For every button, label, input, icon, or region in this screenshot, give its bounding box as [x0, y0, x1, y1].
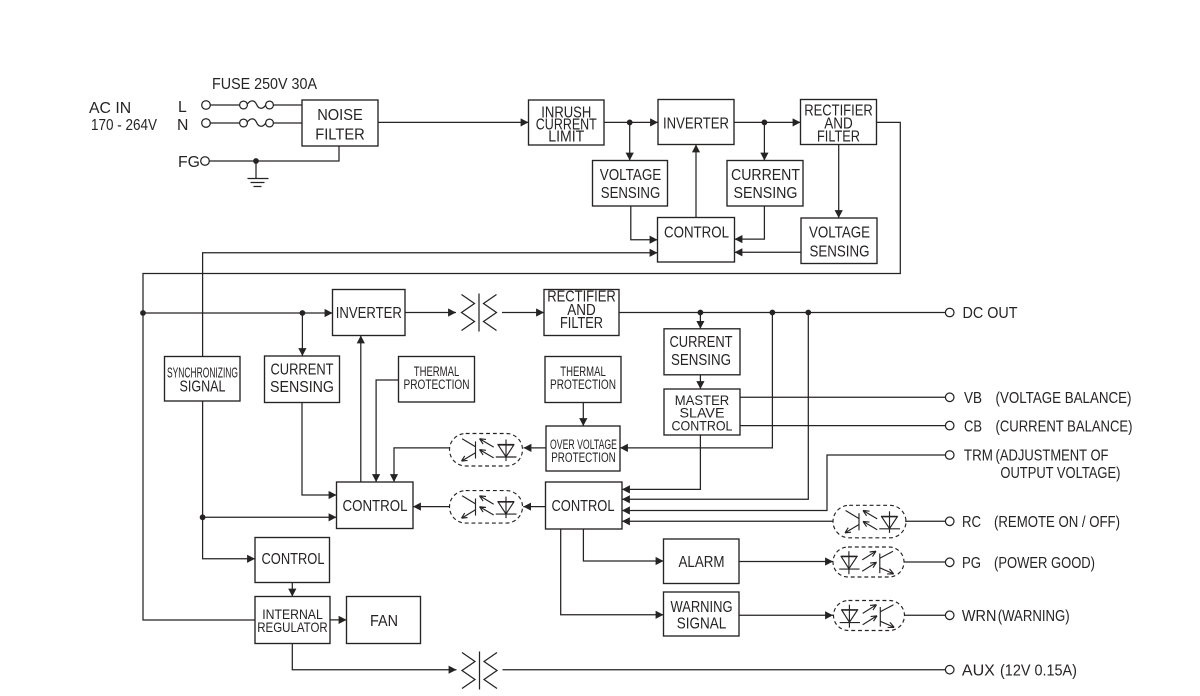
terminal FG: [178, 154, 209, 171]
svg-text:VOLTAGE: VOLTAGE: [600, 167, 662, 184]
wire N terminal to fuse F2: [210, 122, 239, 124]
wire thermal protection left to control 2 top: [376, 380, 398, 482]
svg-text:CONTROL: CONTROL: [664, 225, 729, 242]
svg-text:SENSING: SENSING: [810, 243, 870, 260]
wire OVP to opto isolator 1: [524, 447, 547, 449]
svg-text:N: N: [177, 117, 188, 134]
wire current sensing 3 to master slave control: [699, 375, 701, 389]
svg-text:FG: FG: [178, 154, 200, 171]
wire branch down to current sensing 2: [301, 313, 303, 356]
wire opto 2 to control 2: [413, 506, 450, 508]
wire alarm to opto isolator 4: [739, 561, 833, 563]
block OVER VOLTAGE PROTECTION: [546, 426, 620, 471]
terminal CB: [945, 418, 1132, 435]
terminal N: [177, 117, 210, 134]
svg-text:FAN: FAN: [370, 613, 398, 630]
svg-text:DC OUT: DC OUT: [963, 305, 1018, 322]
terminal DC OUT: [945, 305, 1017, 322]
svg-text:SIGNAL: SIGNAL: [180, 378, 226, 395]
block THERMAL PROTECTION (left): [399, 357, 475, 403]
svg-text:WRN: WRN: [962, 608, 997, 625]
block INTERNAL REGULATOR: [255, 597, 330, 644]
terminal TRM: [945, 448, 1120, 483]
svg-text:L: L: [178, 99, 187, 116]
junction dot DC bus to control 4 sense: [805, 310, 811, 316]
transformer T2: [462, 652, 497, 690]
junction dot inrush-inverter: [627, 120, 633, 126]
svg-text:CURRENT: CURRENT: [731, 167, 801, 184]
junction dot DC bus to OVP sense: [770, 310, 776, 316]
svg-text:FUSE 250V 30A: FUSE 250V 30A: [212, 76, 317, 93]
fuse F1 (line L): [240, 101, 274, 109]
svg-text:INVERTER: INVERTER: [336, 305, 402, 322]
wire control 4 down to warning signal: [561, 529, 664, 615]
svg-text:TRM: TRM: [964, 448, 993, 465]
block CONTROL (secondary side): [546, 482, 623, 529]
block CURRENT SENSING (stage 1): [727, 161, 803, 207]
svg-text:NOISE: NOISE: [317, 107, 363, 124]
ground symbol: [248, 161, 269, 187]
svg-text:FILTER: FILTER: [560, 315, 603, 332]
block MASTER SLAVE CONTROL: [664, 389, 740, 435]
wire DC bus down to current sensing 3: [699, 313, 701, 329]
svg-text:SENSING: SENSING: [671, 352, 731, 369]
svg-text:SENSING: SENSING: [270, 379, 334, 396]
svg-text:VOLTAGE: VOLTAGE: [809, 225, 870, 242]
wire voltage sensing 1 to control 1: [631, 206, 658, 240]
block CONTROL (stage 1): [658, 218, 735, 263]
wire opto 1 to control 2 top: [394, 448, 450, 482]
wire synchronizing signal down to control 2 and control 3: [203, 401, 255, 559]
block INVERTER (stage 1): [658, 100, 734, 145]
wire control 1 up to inverter 1: [695, 145, 697, 218]
svg-text:CONTROL: CONTROL: [343, 498, 408, 515]
block VOLTAGE SENSING (input): [593, 161, 668, 207]
opto isolator 5 (warning): [834, 601, 905, 631]
svg-text:(POWER GOOD): (POWER GOOD): [994, 555, 1095, 572]
junction dot bus to inverter 2: [140, 310, 146, 316]
terminal AUX: [945, 662, 1077, 679]
svg-text:(WARNING): (WARNING): [998, 608, 1070, 625]
block FAN: [347, 597, 421, 644]
svg-text:PG: PG: [962, 555, 981, 572]
junction dot FG/ground: [253, 158, 259, 164]
wire noise filter to inrush current limit: [378, 121, 529, 123]
svg-text:PROTECTION: PROTECTION: [550, 377, 616, 392]
wire synchronizing signal up to control 1: [203, 253, 658, 357]
svg-text:PROTECTION: PROTECTION: [404, 377, 470, 392]
wire internal regulator to transformer T2: [292, 644, 456, 670]
wire internal regulator to fan: [330, 619, 347, 621]
block CONTROL (fan/aux): [255, 538, 330, 583]
wire opto 3 to control 4: [622, 520, 833, 522]
wire fuse F1 to noise filter: [273, 104, 302, 106]
svg-text:(REMOTE ON / OFF): (REMOTE ON / OFF): [994, 514, 1120, 531]
svg-text:(CURRENT BALANCE): (CURRENT BALANCE): [996, 418, 1133, 435]
wire control 4 down to alarm: [583, 529, 663, 561]
block INRUSH CURRENT LIMIT: [529, 100, 605, 146]
svg-text:(VOLTAGE BALANCE): (VOLTAGE BALANCE): [996, 390, 1132, 407]
svg-text:SENSING: SENSING: [734, 185, 798, 202]
svg-text:WARNING: WARNING: [671, 599, 733, 616]
block CURRENT SENSING (stage 2): [265, 356, 340, 403]
opto isolator 3 (remote on/off): [833, 505, 906, 538]
block WARNING SIGNAL: [664, 592, 740, 636]
wire rectifier 1 output bus down-left to internal regulator: [143, 122, 900, 620]
transformer T1: [462, 294, 497, 332]
svg-text:170 - 264V: 170 - 264V: [91, 117, 157, 134]
svg-text:FILTER: FILTER: [315, 127, 365, 144]
junction dot inverter2 feed / current sensing 2: [300, 310, 306, 316]
terminal WRN: [945, 608, 1069, 625]
svg-text:VB: VB: [964, 390, 982, 407]
wire bus to inverter 2: [143, 312, 333, 314]
svg-text:PROTECTION: PROTECTION: [551, 450, 616, 465]
svg-text:CURRENT: CURRENT: [670, 334, 733, 351]
wire voltage sensing 1b to control 1: [735, 251, 802, 253]
wire inrush to inverter: [604, 121, 658, 123]
wire inverter to rectifier: [734, 121, 801, 123]
svg-text:CONTROL: CONTROL: [262, 551, 325, 568]
wire opto 4 to PG terminal: [904, 561, 945, 563]
svg-text:CONTROL: CONTROL: [552, 498, 615, 515]
wire warning signal to opto isolator 5: [739, 614, 833, 616]
wire control 4 to opto isolator 2: [523, 506, 545, 508]
wire current sensing 1 to control 1: [735, 206, 765, 239]
wire thermal protection right to OVP: [582, 403, 584, 427]
wire sync dot to control 2: [203, 516, 337, 518]
block SYNCHRONIZING SIGNAL: [165, 357, 241, 402]
wire master slave control to VB terminal: [740, 396, 945, 398]
block RECTIFIER AND FILTER (stage 1): [801, 100, 877, 146]
svg-text:CURRENT: CURRENT: [271, 362, 334, 379]
block RECTIFIER AND FILTER (stage 2): [544, 289, 619, 336]
label AC IN 170-264V: [89, 100, 157, 134]
block CONTROL (stage 2): [337, 482, 414, 529]
svg-text:REGULATOR: REGULATOR: [257, 619, 328, 635]
wire control 3 to internal regulator: [291, 583, 293, 597]
svg-text:OUTPUT VOLTAGE): OUTPUT VOLTAGE): [1000, 465, 1120, 482]
block ALARM: [664, 539, 740, 584]
wire inverter 2 to transformer T1: [405, 312, 456, 314]
svg-text:LIMIT: LIMIT: [548, 129, 585, 146]
wire DC bus down to over voltage protection: [620, 313, 772, 448]
svg-text:AC IN: AC IN: [89, 100, 131, 117]
block INVERTER (stage 2): [333, 290, 406, 336]
opto isolator 2 (control feedback): [450, 491, 523, 523]
svg-text:CB: CB: [964, 418, 982, 435]
wire opto 3 to RC terminal: [905, 520, 945, 522]
wire TRM terminal to control 4: [622, 455, 945, 511]
terminal RC: [945, 514, 1120, 531]
wire opto 5 to WRN terminal: [905, 614, 946, 616]
svg-text:FILTER: FILTER: [817, 128, 860, 145]
fuse F2 (line N): [240, 119, 274, 127]
wire transformer T2 to AUX terminal: [503, 669, 946, 671]
wire master slave control down to control 4: [622, 435, 700, 489]
block CURRENT SENSING (output): [664, 329, 740, 375]
svg-text:SENSING: SENSING: [601, 185, 661, 202]
wire L terminal to fuse F1: [210, 104, 239, 106]
svg-text:AUX: AUX: [962, 662, 995, 679]
wire rectifier 1 down to voltage sensing 1b: [838, 145, 840, 219]
wire branch down to voltage sensing 1: [629, 122, 631, 160]
terminal L: [178, 99, 210, 116]
block NOISE FILTER: [302, 100, 378, 146]
svg-text:SIGNAL: SIGNAL: [677, 616, 727, 633]
opto isolator 4 (power good): [833, 547, 904, 577]
svg-text:INVERTER: INVERTER: [663, 116, 729, 133]
opto isolator 1 (OVP feedback): [450, 434, 523, 467]
wire current sensing 2 to control 2: [302, 403, 337, 496]
wire master slave control to CB terminal: [740, 425, 945, 427]
junction dot inverter-rectifier: [762, 120, 768, 126]
wire DC sense down to control 4: [622, 313, 808, 500]
svg-text:RC: RC: [962, 514, 981, 531]
wire control 2 up to inverter 2: [360, 336, 362, 483]
svg-text:(ADJUSTMENT OF: (ADJUSTMENT OF: [996, 448, 1109, 465]
svg-text:ALARM: ALARM: [679, 554, 725, 571]
block VOLTAGE SENSING (output, stage 1): [801, 218, 877, 264]
wire DC OUT bus: [619, 312, 945, 314]
wire branch down to current sensing 1: [763, 122, 765, 160]
junction dot DC bus to current sensing 3: [698, 310, 704, 316]
wire FG to noise filter bottom: [209, 146, 339, 161]
terminal PG: [945, 555, 1095, 572]
junction dot sync line: [200, 514, 206, 520]
svg-text:(12V 0.15A): (12V 0.15A): [1000, 662, 1077, 679]
block THERMAL PROTECTION (right): [545, 357, 621, 403]
svg-text:CONTROL: CONTROL: [672, 418, 733, 434]
wire transformer T1 to rectifier 2: [502, 312, 544, 314]
terminal VB: [945, 390, 1131, 407]
wire fuse F2 to noise filter: [273, 122, 302, 124]
